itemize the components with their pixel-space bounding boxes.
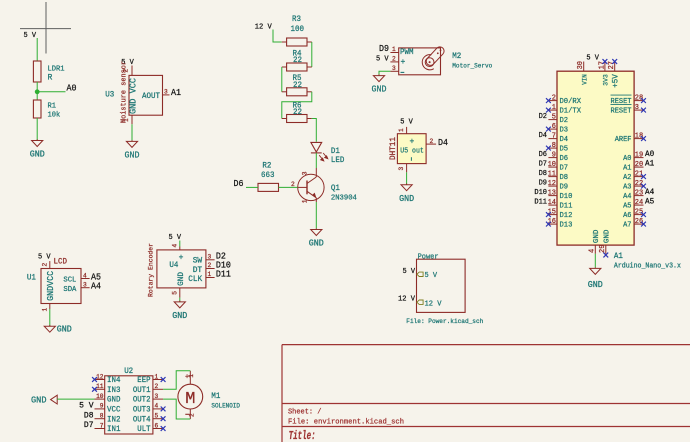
svg-text:2: 2	[41, 263, 48, 267]
svg-text:D1/TX: D1/TX	[560, 108, 582, 116]
svg-text:Title:: Title:	[289, 430, 316, 442]
svg-text:4: 4	[588, 248, 596, 253]
svg-text:12: 12	[96, 373, 104, 380]
svg-text:A4: A4	[645, 188, 654, 197]
svg-text:D9: D9	[560, 184, 569, 192]
svg-text:30: 30	[577, 61, 585, 69]
svg-text:D4: D4	[560, 136, 569, 144]
svg-text:D4: D4	[539, 132, 548, 140]
svg-text:OUT2: OUT2	[133, 397, 151, 405]
svg-text:A5: A5	[645, 198, 654, 207]
svg-text:D3: D3	[560, 127, 569, 135]
svg-text:9: 9	[552, 151, 556, 159]
svg-text:4: 4	[155, 403, 159, 410]
svg-text:A4: A4	[623, 193, 632, 201]
svg-text:EEP: EEP	[137, 377, 151, 385]
svg-text:GND: GND	[593, 229, 601, 243]
svg-text:R: R	[48, 73, 53, 82]
svg-text:10k: 10k	[48, 112, 61, 120]
svg-text:1: 1	[398, 128, 405, 132]
svg-text:7: 7	[552, 132, 556, 140]
svg-text:OUT4: OUT4	[133, 416, 151, 424]
svg-text:2: 2	[552, 94, 556, 102]
svg-text:6: 6	[155, 422, 159, 429]
svg-text:D6: D6	[539, 151, 547, 159]
svg-text:12 V: 12 V	[398, 296, 415, 304]
svg-text:10: 10	[548, 161, 556, 169]
svg-text:2N3904: 2N3904	[331, 195, 357, 203]
svg-text:U4: U4	[169, 261, 178, 270]
svg-text:3: 3	[208, 253, 212, 260]
svg-text:GND: GND	[107, 396, 121, 405]
svg-text:D7: D7	[539, 161, 547, 169]
svg-text:IN3: IN3	[107, 386, 121, 395]
svg-text:22: 22	[293, 81, 302, 90]
svg-text:9: 9	[100, 403, 104, 410]
svg-text:1: 1	[188, 374, 195, 378]
svg-text:A1: A1	[171, 88, 181, 98]
svg-text:5 V: 5 V	[38, 253, 51, 261]
svg-text:A1: A1	[614, 252, 623, 261]
svg-text:A0: A0	[67, 83, 77, 93]
svg-text:M2: M2	[452, 52, 461, 61]
svg-text:100: 100	[291, 25, 305, 34]
svg-text:22: 22	[293, 56, 302, 65]
svg-text:VIN: VIN	[582, 74, 589, 85]
svg-text:1: 1	[123, 118, 130, 122]
svg-text:PWM: PWM	[400, 48, 414, 57]
svg-text:ULT: ULT	[137, 426, 151, 434]
svg-text:SDA: SDA	[63, 286, 76, 294]
svg-text:SCL: SCL	[63, 277, 76, 285]
svg-text:R2: R2	[262, 161, 271, 170]
svg-text:+: +	[410, 137, 415, 146]
svg-text:A4: A4	[91, 282, 101, 292]
svg-text:6: 6	[552, 123, 556, 131]
svg-text:Sheet: /: Sheet: /	[288, 409, 322, 417]
svg-text:3: 3	[164, 88, 168, 95]
svg-text:5 V: 5 V	[376, 55, 389, 63]
svg-text:GND: GND	[57, 325, 72, 335]
svg-text:D10: D10	[560, 193, 573, 201]
svg-text:D12: D12	[560, 212, 573, 220]
svg-text:GND: GND	[172, 311, 187, 321]
svg-text:12 V: 12 V	[425, 300, 442, 308]
svg-text:5 V: 5 V	[403, 268, 416, 276]
svg-text:D11: D11	[216, 269, 231, 279]
svg-text:D7: D7	[560, 165, 569, 173]
svg-text:1: 1	[41, 308, 48, 312]
svg-text:5 V: 5 V	[24, 32, 37, 40]
svg-text:3: 3	[155, 393, 159, 400]
svg-text:M1: M1	[211, 392, 220, 401]
svg-text:3: 3	[83, 282, 87, 289]
svg-text:7: 7	[100, 422, 104, 429]
svg-text:A5: A5	[623, 203, 631, 211]
svg-text:2: 2	[208, 262, 212, 269]
svg-text:5 V: 5 V	[79, 402, 94, 411]
svg-text:U1: U1	[27, 274, 36, 283]
svg-text:1: 1	[155, 373, 159, 380]
svg-text:3: 3	[392, 65, 396, 72]
svg-text:GND: GND	[399, 194, 414, 204]
svg-text:RESET: RESET	[611, 108, 633, 116]
svg-text:12 V: 12 V	[255, 23, 272, 31]
svg-text:DT: DT	[193, 265, 203, 275]
svg-text:D4: D4	[438, 138, 448, 148]
svg-text:Arduino_Nano_v3.x: Arduino_Nano_v3.x	[614, 263, 681, 271]
svg-text:5 V: 5 V	[425, 272, 438, 280]
svg-text:+5V: +5V	[612, 74, 621, 88]
svg-text:1: 1	[302, 199, 309, 203]
svg-text:12: 12	[548, 180, 556, 188]
svg-text:2: 2	[392, 55, 396, 62]
svg-text:D9: D9	[539, 180, 547, 188]
svg-text:IN2: IN2	[107, 415, 121, 424]
svg-text:11: 11	[548, 170, 557, 178]
svg-text:D9: D9	[379, 44, 389, 54]
svg-text:R1: R1	[48, 103, 57, 111]
svg-text:D8: D8	[560, 174, 569, 182]
svg-text:GND: GND	[588, 280, 603, 290]
svg-text:CLK: CLK	[188, 275, 202, 284]
svg-text:LCD: LCD	[54, 258, 68, 267]
svg-text:LED: LED	[331, 156, 345, 165]
svg-text:A1: A1	[623, 165, 632, 173]
svg-text:R3: R3	[292, 15, 301, 24]
svg-text:+: +	[401, 58, 406, 67]
svg-text:1: 1	[552, 104, 557, 112]
svg-text:Motor_Servo: Motor_Servo	[452, 63, 492, 70]
svg-text:22: 22	[293, 108, 302, 117]
svg-text:13: 13	[548, 189, 556, 197]
svg-text:GND: GND	[309, 239, 324, 249]
svg-text:OUT1: OUT1	[133, 387, 151, 395]
svg-text:4: 4	[171, 244, 178, 248]
svg-text:GND: GND	[125, 151, 140, 161]
svg-text:11: 11	[96, 383, 104, 390]
svg-text:5: 5	[155, 413, 159, 420]
svg-text:U5 out: U5 out	[400, 147, 424, 155]
svg-text:A0: A0	[645, 150, 654, 159]
svg-text:IN1: IN1	[107, 425, 121, 434]
svg-text:29: 29	[599, 245, 607, 253]
svg-text:U2: U2	[124, 367, 133, 376]
svg-text:5: 5	[171, 291, 178, 295]
svg-text:GND: GND	[372, 85, 387, 95]
svg-text:2: 2	[155, 383, 159, 390]
svg-text:D1: D1	[331, 147, 340, 156]
svg-text:U3: U3	[105, 90, 114, 99]
svg-text:D6: D6	[560, 155, 569, 163]
svg-text:4: 4	[83, 273, 87, 280]
svg-text:AOUT: AOUT	[142, 92, 160, 101]
svg-text:SOLENOID: SOLENOID	[211, 402, 240, 409]
svg-text:File: environment.kicad_sch: File: environment.kicad_sch	[288, 419, 404, 427]
svg-text:D6: D6	[234, 179, 244, 189]
svg-text:GND: GND	[604, 229, 612, 243]
svg-text:A0: A0	[623, 155, 631, 163]
svg-text:1: 1	[392, 46, 396, 53]
svg-text:8: 8	[100, 413, 104, 420]
svg-text:A6: A6	[623, 212, 631, 220]
svg-text:3: 3	[398, 167, 405, 171]
svg-text:DHT11: DHT11	[389, 137, 398, 160]
svg-text:GND VCC: GND VCC	[127, 77, 138, 114]
svg-text:A2: A2	[623, 174, 631, 182]
svg-text:Power: Power	[418, 253, 439, 261]
svg-text:VCC: VCC	[107, 406, 121, 415]
svg-text:1: 1	[208, 271, 212, 278]
svg-text:2: 2	[189, 413, 196, 417]
svg-text:AREF: AREF	[615, 136, 632, 144]
svg-text:3: 3	[302, 171, 309, 175]
svg-text:A1: A1	[645, 160, 654, 169]
svg-text:14: 14	[548, 199, 557, 207]
svg-text:GND: GND	[177, 272, 186, 286]
svg-text:5 V: 5 V	[400, 119, 413, 127]
svg-text:2: 2	[430, 138, 434, 145]
svg-text:M: M	[185, 390, 195, 409]
svg-text:5: 5	[552, 113, 556, 121]
svg-text:D5: D5	[560, 146, 569, 154]
svg-text:19: 19	[635, 151, 643, 159]
svg-text:3V3: 3V3	[603, 74, 611, 86]
svg-text:File: Power.kicad_sch: File: Power.kicad_sch	[406, 318, 483, 325]
svg-text:Rotary Encoder: Rotary Encoder	[148, 243, 156, 297]
svg-text:A7: A7	[623, 222, 631, 230]
svg-text:D7: D7	[84, 421, 94, 430]
svg-text:D8: D8	[84, 411, 94, 420]
svg-text:663: 663	[261, 171, 275, 180]
svg-text:20: 20	[635, 161, 643, 169]
svg-text:D10: D10	[534, 189, 547, 197]
svg-text:5 V: 5 V	[586, 55, 599, 63]
svg-text:10: 10	[96, 393, 104, 400]
svg-text:Q1: Q1	[331, 184, 340, 193]
svg-text:OUT3: OUT3	[133, 407, 151, 415]
svg-text:D11: D11	[534, 199, 547, 207]
svg-text:A3: A3	[623, 184, 631, 192]
svg-text:D8: D8	[539, 170, 547, 178]
svg-text:24: 24	[635, 199, 644, 207]
svg-text:+: +	[179, 253, 184, 262]
svg-text:GND: GND	[31, 395, 47, 406]
svg-text:GNDVCC: GNDVCC	[46, 271, 56, 301]
svg-text:8: 8	[552, 142, 556, 150]
svg-text:23: 23	[635, 189, 643, 197]
svg-text:D0/RX: D0/RX	[560, 98, 582, 106]
svg-text:D11: D11	[560, 203, 573, 211]
svg-text:IN4: IN4	[107, 376, 121, 385]
svg-text:D2: D2	[539, 113, 547, 121]
svg-text:3: 3	[635, 104, 639, 112]
svg-text:GND: GND	[30, 150, 45, 160]
svg-text:D2: D2	[560, 117, 569, 125]
svg-text:D13: D13	[560, 222, 573, 230]
